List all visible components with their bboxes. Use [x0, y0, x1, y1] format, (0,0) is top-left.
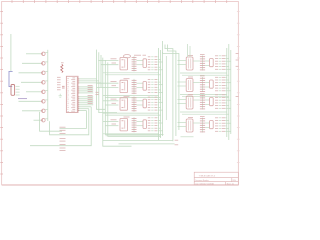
optocoupler OK3	[120, 98, 128, 110]
net labels right border	[236, 54, 239, 97]
wire stubs to bus K3	[225, 95, 231, 109]
svg-text:Document Number:: Document Number:	[195, 179, 209, 182]
svg-text:Sheet: 1/1: Sheet: 1/1	[227, 182, 234, 185]
pin labels block OK2	[148, 80, 157, 93]
wire mid corner 1	[163, 41, 179, 130]
wire mid corner 3	[168, 45, 176, 137]
transistor Q7	[41, 109, 45, 113]
svg-text:TI MLB DIAG V1.0: TI MLB DIAG V1.0	[199, 175, 216, 178]
wire stubs ladder 3	[193, 100, 210, 105]
wire base Q5	[26, 91, 41, 93]
label bottom right	[175, 140, 179, 145]
title block text	[195, 175, 237, 186]
transistor Q3	[41, 71, 45, 75]
resistor R2	[143, 82, 147, 91]
wire base Q6	[19, 100, 42, 102]
label RN8	[200, 115, 205, 117]
wire below OK3	[103, 113, 161, 115]
svg-text:Date: 6/26/2007 10:48 AM: Date: 6/26/2007 10:48 AM	[195, 182, 214, 185]
resistor R3	[143, 99, 147, 108]
transistor Q4	[41, 81, 45, 85]
bus vertical B1	[103, 58, 132, 147]
wire below OK1	[103, 73, 161, 75]
transistor Q8	[41, 118, 45, 122]
wire base Q4	[21, 81, 41, 83]
wire below K2	[180, 95, 229, 97]
wire base Q2	[22, 62, 41, 64]
capacitor C1	[62, 86, 65, 88]
label OK4	[124, 116, 130, 118]
pin labels block K2	[215, 77, 225, 91]
label OK2	[124, 78, 130, 80]
bus right column vertical 3	[230, 50, 232, 134]
resistor ladder RN6	[200, 77, 205, 92]
wire stubs relay K1	[178, 61, 187, 65]
net label column	[60, 127, 66, 150]
svg-text:REV:: REV:	[233, 180, 237, 182]
resistor ladder RN7	[200, 95, 205, 110]
IC U1 pin names right column	[71, 78, 75, 111]
connector bracket J1	[9, 71, 13, 86]
wire base Q1	[26, 53, 41, 55]
wire stubs RN1	[137, 61, 144, 65]
wire stubs to bus OK3	[157, 97, 162, 110]
bus right column vertical 1	[226, 48, 228, 137]
wire below OK4	[103, 134, 161, 136]
resistor ladder RN5	[200, 56, 205, 71]
optocoupler OK4	[120, 119, 128, 131]
IC U1 left side labels	[57, 77, 61, 90]
transistor Q1	[41, 52, 45, 56]
resistor ladder RN3	[132, 97, 137, 112]
wire stubs relay K3	[178, 100, 187, 104]
optocoupler OK1	[120, 58, 128, 70]
pin labels block OK3	[148, 97, 157, 110]
optocoupler OK2	[120, 80, 128, 92]
resistor R7	[210, 98, 214, 106]
wire stub purple	[18, 98, 27, 100]
ground symbol GND	[59, 94, 63, 97]
wire bottom row4b	[119, 143, 175, 145]
resistor ladder RN4	[132, 117, 137, 132]
wire stubs to bus OK1	[157, 57, 162, 70]
IC U1 right pin wires	[78, 79, 101, 111]
net labels on stubs	[111, 59, 117, 124]
wire stubs bus to OK column	[97, 61, 119, 126]
wire stubs to bus K2	[225, 77, 231, 91]
IC U1 body	[66, 76, 78, 112]
transistor Q5	[41, 90, 45, 94]
wire mid corner 2	[165, 45, 173, 142]
wire below OK2	[103, 96, 161, 98]
bus left column vertical 1	[158, 48, 160, 140]
bus right column vertical 2	[228, 44, 230, 140]
label X1	[61, 62, 64, 64]
wire mid vertical 4	[165, 56, 167, 120]
wire VCC vertical left	[10, 34, 12, 71]
wire below K1	[180, 73, 229, 75]
resistor ladder RN2	[132, 79, 137, 94]
bus vertical B3	[108, 62, 161, 136]
wire stubs to bus K4	[225, 118, 231, 132]
label K4	[188, 117, 193, 119]
resistor R4	[143, 120, 147, 129]
resistor R1	[143, 59, 147, 68]
label K3	[188, 94, 193, 96]
label OK3	[124, 95, 130, 97]
wire feed right column top 2	[189, 46, 191, 57]
label K2	[188, 76, 193, 78]
bus left column vertical 3	[162, 52, 164, 136]
pin labels block K3	[215, 95, 225, 109]
wire stubs to bus OK2	[157, 80, 162, 93]
connector J2	[11, 85, 20, 96]
resistor ladder RN1	[132, 56, 137, 71]
wire stubs ladder 1	[193, 61, 210, 66]
title block outline	[194, 172, 238, 185]
net labels right of IC	[88, 86, 93, 104]
wire stubs to bus K1	[225, 56, 231, 70]
relay K3	[186, 96, 193, 109]
label OK1	[123, 55, 130, 58]
wire below K3	[180, 112, 229, 114]
bus left column vertical 2	[160, 50, 162, 138]
wire stubs RN4	[137, 122, 144, 126]
bus vertical A3	[100, 55, 102, 87]
wire bottom row4	[103, 140, 173, 142]
IC U1 pin names left column	[67, 79, 69, 112]
wire below K4	[181, 136, 194, 138]
wire stubs relay K2	[178, 82, 187, 86]
wire net 211	[60, 111, 87, 129]
bus vertical A2	[99, 52, 117, 112]
wire stubs relay K4	[178, 123, 187, 127]
crystal X1	[61, 64, 63, 72]
wire net 212	[40, 112, 62, 131]
label RN7	[200, 92, 205, 94]
wire net GND bottom	[30, 107, 91, 146]
resistor R5	[210, 59, 214, 67]
wire stubs ladder 2	[193, 83, 210, 88]
pin labels block K1	[215, 56, 225, 70]
frame ticks left edge	[0, 12, 3, 174]
frame ticks top edge	[12, 0, 227, 3]
bus vertical A1	[97, 50, 106, 110]
wire base Q7	[22, 110, 41, 112]
transistor Q6	[41, 100, 45, 104]
frame ticks right edge	[237, 12, 240, 163]
wire emitter bus	[45, 50, 48, 121]
net label bus A	[96, 92, 99, 94]
frame border	[2, 2, 239, 186]
wire stubs ladder 4	[193, 123, 210, 128]
resistor R8	[210, 121, 214, 129]
relay K4	[186, 119, 193, 132]
bus vertical B2	[105, 60, 163, 135]
resistor R6	[210, 80, 214, 88]
wire base Q3	[19, 72, 42, 74]
relay K1	[186, 57, 193, 70]
pin labels block OK4	[148, 118, 157, 131]
resistor ladder RN8	[200, 118, 205, 133]
wire feed right column top 1	[187, 44, 189, 57]
label K1	[188, 55, 193, 57]
wire base Q8	[34, 119, 42, 121]
frame ticks bottom edge	[0, 0, 1, 1]
label RN6	[200, 75, 205, 77]
pin labels block OK1	[148, 57, 157, 70]
pin labels block K4	[215, 118, 225, 132]
relay K2	[186, 79, 193, 92]
wire stubs RN3	[137, 101, 144, 105]
label RN5	[200, 53, 205, 55]
transistor Q2	[41, 62, 45, 66]
wire stubs to bus OK4	[157, 118, 162, 131]
wire net 213	[50, 109, 89, 135]
wire stubs RN2	[137, 83, 144, 87]
